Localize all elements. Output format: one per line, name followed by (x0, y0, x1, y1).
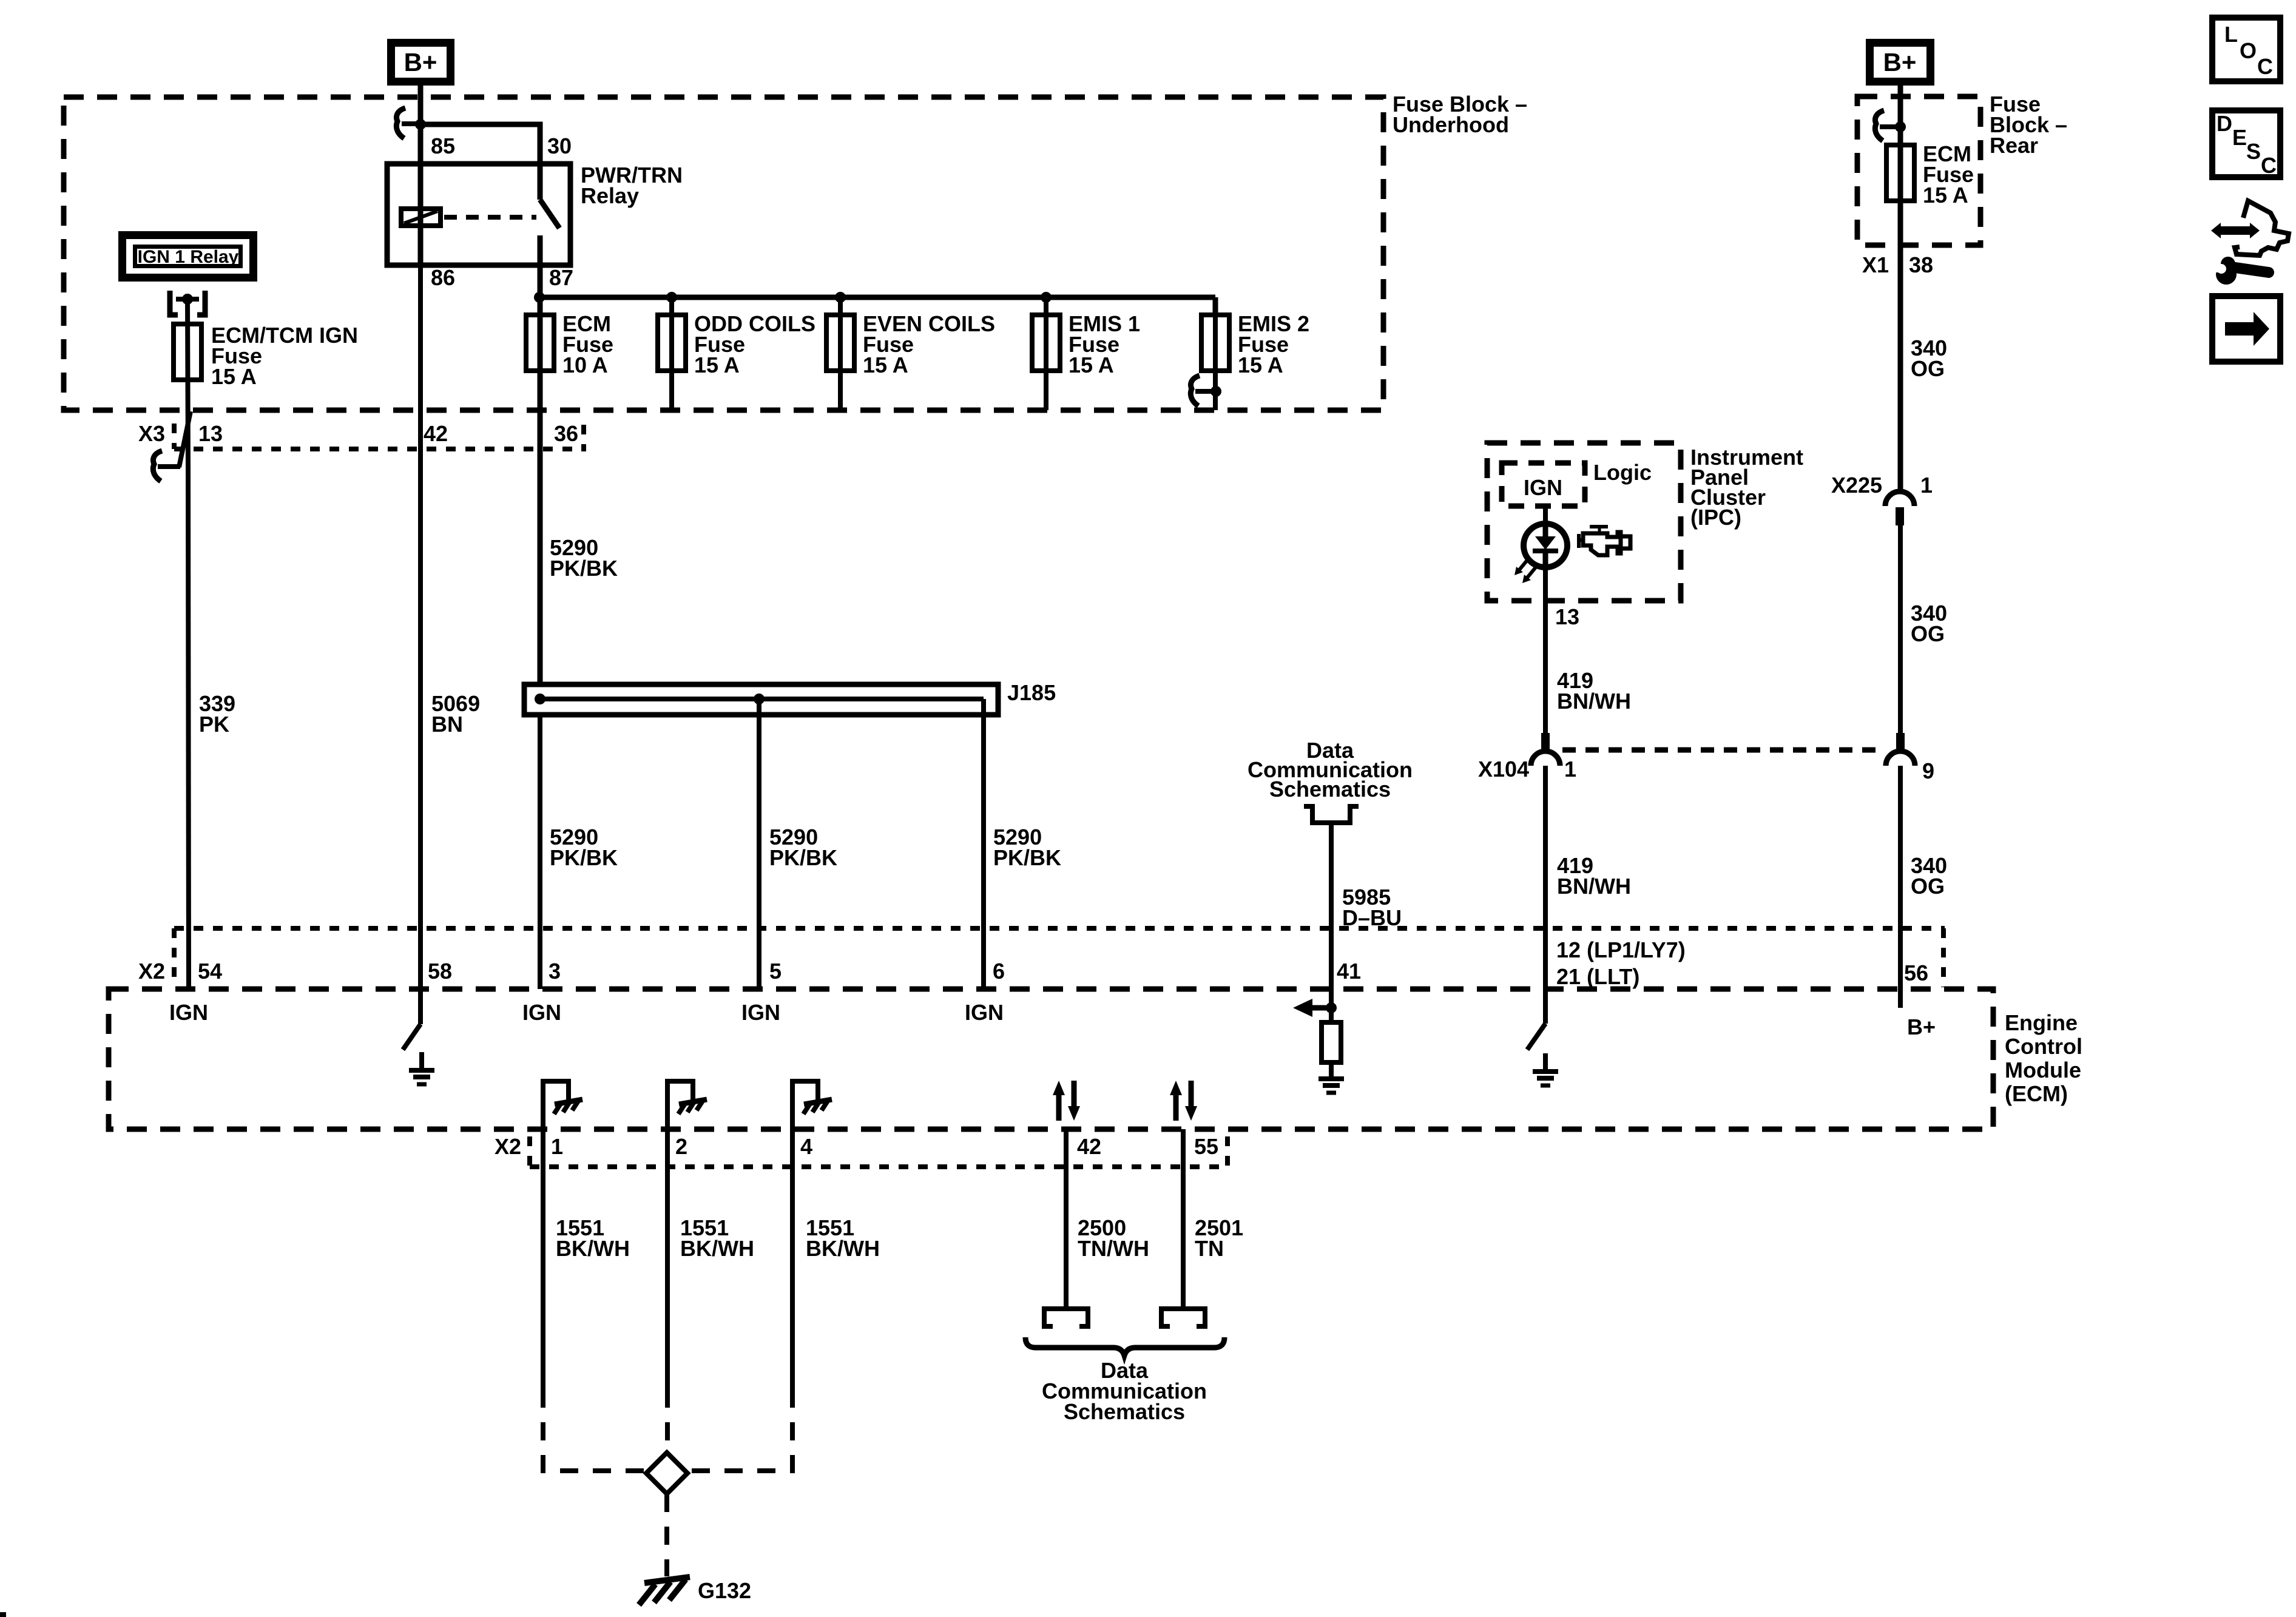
svg-text:PK/BK: PK/BK (550, 556, 618, 581)
svg-text:PK: PK (199, 712, 229, 737)
svg-text:Relay: Relay (581, 183, 639, 208)
svg-text:BN/WH: BN/WH (1557, 689, 1631, 714)
dashed ground run from pin 2 (665, 1389, 670, 1451)
relay switch pin 30 contact and blade (538, 164, 543, 200)
svg-text:Module: Module (2005, 1058, 2081, 1082)
svg-text:OG: OG (1911, 356, 1945, 381)
svg-text:Engine: Engine (2005, 1010, 2078, 1035)
connector clip at X3-13 (153, 451, 180, 481)
off-page terminator at wire 2500 (1044, 1309, 1088, 1326)
wire resistor to ground (1329, 1062, 1334, 1079)
lamp emission arrows (1514, 559, 1536, 583)
dashed ground run from pin 1 (543, 1389, 644, 1471)
svg-text:1: 1 (1920, 473, 1933, 498)
svg-text:G132: G132 (698, 1578, 751, 1603)
ECM internal switch at pin 12/21 (1543, 989, 1548, 1024)
connector X2 dotted line (top of ECM) (174, 926, 1945, 931)
svg-text:5: 5 (769, 959, 782, 984)
svg-text:X1: X1 (1862, 252, 1889, 277)
check engine icon (1579, 527, 1630, 555)
ground (ECM internal, pin 58) (409, 1052, 434, 1084)
svg-text:15 A: 15 A (1923, 183, 1968, 208)
svg-text:C: C (2261, 153, 2277, 178)
svg-text:PK/BK: PK/BK (993, 845, 1061, 870)
relay coil (401, 209, 441, 226)
svg-text:B+: B+ (1883, 48, 1917, 76)
dashed wire diamond to G132 (664, 1494, 669, 1576)
fuse ODD COILS 15 A (669, 297, 674, 410)
wire indicator to IPC pin 13 (1543, 567, 1548, 601)
svg-text:J185: J185 (1007, 680, 1056, 705)
connector clip below EMIS 2 fuse (1190, 376, 1221, 406)
wire 340 OG X225-9 to ECM pin 56 (1898, 766, 1903, 989)
svg-text:OG: OG (1911, 621, 1945, 646)
wire 419 BN/WH X104 to ECM (1543, 766, 1548, 989)
relay pin 85 wire through coil (418, 164, 424, 265)
svg-text:D–BU: D–BU (1342, 905, 1402, 930)
fuse EVEN COILS 15 A (838, 297, 843, 410)
resistor (ECM internal pull-up) (1322, 1022, 1341, 1062)
svg-text:9: 9 (1922, 758, 1934, 783)
connector clip on B+ drop (396, 108, 417, 138)
fuse ECM 10 A (538, 297, 542, 410)
junction node J185 middle (754, 694, 765, 704)
ECM internal ground stub at pin 4 (792, 1081, 818, 1129)
svg-text:Control: Control (2005, 1034, 2082, 1059)
icon LOC box (2212, 18, 2280, 81)
icon forward arrow box (2212, 296, 2280, 362)
IGN logic inner dashed box (1502, 463, 1585, 506)
junction node bus at EMIS 1 fuse (1041, 292, 1052, 303)
svg-text:IGN: IGN (169, 1000, 208, 1025)
junction node bus at ODD COILS fuse (666, 292, 677, 303)
wire IGN logic to indicator (1543, 506, 1548, 524)
wire 5290 PK/BK J185 to ECM pin 3 (538, 715, 542, 989)
power symbol B+ (right battery feed) (1870, 43, 1931, 82)
wire 5985 circuit inside ECM at pin 41 (1329, 989, 1334, 1022)
icon DESC box (2212, 110, 2280, 178)
svg-text:X225: X225 (1831, 473, 1882, 498)
IGN 1 relay output terminal bracket (170, 291, 205, 315)
svg-text:BK/WH: BK/WH (806, 1236, 880, 1261)
svg-text:X2: X2 (138, 959, 165, 984)
svg-text:Logic: Logic (1593, 460, 1652, 485)
serial data arrow (left) (1293, 999, 1331, 1017)
wire 340 OG X225 to X225-9 (1898, 525, 1903, 734)
Engine Control Module (ECM) dashed boundary (109, 989, 1993, 1129)
svg-text:X104: X104 (1478, 757, 1529, 781)
brace to Data Communication Schematics (1025, 1337, 1224, 1355)
svg-text:86: 86 (431, 265, 455, 290)
X3 pass-through diagonal (179, 411, 191, 467)
svg-text:B+: B+ (1907, 1014, 1936, 1039)
svg-text:BK/WH: BK/WH (556, 1236, 630, 1261)
svg-text:PK/BK: PK/BK (550, 845, 618, 870)
connector X104 pin 1 (1531, 733, 1560, 766)
svg-text:PK/BK: PK/BK (769, 845, 837, 870)
splice pack J185 (524, 684, 998, 715)
serial data arrows at pin 55 (1170, 1081, 1197, 1121)
svg-text:15 A: 15 A (1069, 353, 1114, 377)
wire 340 into ECM pin 56 (1898, 989, 1903, 1008)
fuse block underhood dashed boundary (64, 97, 1383, 410)
svg-text:IGN: IGN (741, 1000, 780, 1025)
svg-text:12 (LP1/LY7): 12 (LP1/LY7) (1556, 937, 1686, 962)
svg-text:BN/WH: BN/WH (1557, 874, 1631, 899)
svg-text:1: 1 (1564, 757, 1576, 781)
svg-text:S: S (2246, 139, 2261, 164)
wire 419 BN/WH IPC to X104 (1543, 601, 1548, 734)
fuse ECM Fuse 15 A (rear) (1886, 145, 1914, 201)
svg-text:4: 4 (800, 1134, 812, 1159)
svg-text:42: 42 (1077, 1134, 1101, 1159)
power symbol B+ (left battery feed) (391, 43, 451, 82)
chassis ground hatch (pin 4) (803, 1099, 832, 1114)
svg-text:1: 1 (551, 1134, 563, 1159)
wire B+ to relay pin 85 junction (418, 86, 424, 164)
svg-text:58: 58 (428, 959, 452, 984)
svg-text:41: 41 (1337, 959, 1361, 984)
svg-text:Schematics: Schematics (1064, 1399, 1185, 1424)
svg-text:87: 87 (549, 265, 573, 290)
svg-text:B+: B+ (404, 48, 437, 76)
svg-text:D: D (2217, 111, 2232, 136)
ECM internal switch at pin 58 (418, 989, 423, 1024)
indicator lamp (MIL) (1524, 524, 1567, 567)
svg-text:X2: X2 (495, 1134, 521, 1159)
ground (ECM internal, pin 41) (1319, 1061, 1344, 1093)
svg-text:(IPC): (IPC) (1690, 505, 1741, 530)
fuse EMIS 1 15 A (1044, 297, 1048, 410)
svg-text:BK/WH: BK/WH (680, 1236, 754, 1261)
svg-text:O: O (2240, 38, 2257, 63)
wires through X2 bottom connector (541, 1129, 545, 1389)
svg-text:56: 56 (1904, 960, 1928, 985)
splice diamond (ground junction) (646, 1453, 687, 1494)
page corner mark (0, 1612, 6, 1617)
svg-text:15 A: 15 A (1238, 353, 1283, 377)
svg-text:13: 13 (198, 421, 223, 446)
ground G132 (639, 1577, 690, 1605)
svg-text:TN/WH: TN/WH (1078, 1236, 1149, 1261)
svg-text:38: 38 (1909, 252, 1933, 277)
svg-text:(ECM): (ECM) (2005, 1081, 2068, 1106)
svg-text:10 A: 10 A (562, 353, 608, 377)
relay PWR/TRN box (387, 164, 570, 265)
wire 5069 BN relay pin 86 to ECM pin 58 (418, 265, 423, 989)
wire 5290 PK/BK J185 to ECM pin 6 (981, 715, 986, 989)
svg-text:6: 6 (993, 959, 1005, 984)
wire 339 PK from X3-13 to ECM pin 54 (188, 467, 189, 989)
svg-text:55: 55 (1194, 1134, 1218, 1159)
relay actuation dashed link (444, 215, 536, 220)
off-page terminator at wire 2501 (1161, 1309, 1205, 1326)
chassis ground hatch (pin 2) (678, 1099, 707, 1114)
svg-text:3: 3 (549, 959, 561, 984)
dashed connector line X104 to X225 (1562, 748, 1884, 753)
wire 5290 PK/BK J185 to ECM pin 5 (757, 699, 761, 989)
svg-text:BN: BN (431, 712, 463, 737)
svg-text:IGN: IGN (1524, 475, 1562, 500)
connector X225 pin 9 (1886, 733, 1915, 766)
dashed ground run from pin 4 (689, 1389, 792, 1471)
connector X3 dotted line (174, 447, 584, 451)
wire bus from relay pin 87 (539, 295, 1215, 300)
svg-text:15 A: 15 A (211, 364, 257, 389)
junction node at relay pin 85 branch (415, 119, 426, 130)
serial data arrows at pin 42 (1053, 1081, 1080, 1121)
relay IGN 1 Relay label box (123, 235, 254, 278)
svg-text:21 (LLT): 21 (LLT) (1556, 964, 1639, 989)
svg-text:42: 42 (424, 421, 448, 446)
connector X225 pin 1 (1885, 491, 1914, 525)
svg-text:TN: TN (1195, 1236, 1224, 1261)
junction node at pin 41 (1326, 1002, 1337, 1013)
junction node bus at ECM fuse (534, 292, 545, 303)
svg-text:30: 30 (547, 133, 572, 158)
svg-text:L: L (2224, 22, 2238, 47)
svg-text:15 A: 15 A (863, 353, 908, 377)
svg-text:13: 13 (1555, 604, 1579, 629)
Instrument Panel Cluster dashed box (1487, 443, 1681, 601)
svg-text:36: 36 (554, 421, 578, 446)
svg-text:Rear: Rear (1990, 133, 2038, 158)
chassis ground hatch (pin 1) (554, 1099, 582, 1114)
ECM internal ground stub at pin 2 (667, 1081, 693, 1129)
svg-text:E: E (2232, 125, 2247, 150)
svg-text:X3: X3 (138, 421, 165, 446)
connector X2 dotted line (bottom) (530, 1164, 1227, 1169)
svg-text:IGN: IGN (522, 1000, 561, 1025)
svg-text:Underhood: Underhood (1393, 112, 1509, 137)
svg-text:OG: OG (1911, 874, 1945, 899)
svg-text:54: 54 (198, 959, 222, 984)
icon wrench (2206, 257, 2269, 285)
svg-text:15 A: 15 A (694, 353, 740, 377)
svg-text:IGN: IGN (965, 1000, 1004, 1025)
fuse EMIS 2 15 A (1213, 297, 1218, 410)
wire IGN1 relay to ECM/TCM IGN fuse (187, 299, 188, 468)
Fuse Block - Rear dashed boundary (1857, 96, 1980, 245)
junction node J185 left (535, 694, 545, 704)
wire 5985 D-BU to ECM pin 41 (1329, 823, 1334, 989)
wire B+ to ECM fuse (rear) (1898, 86, 1903, 489)
connector clip on right B+ drop (1875, 110, 1906, 141)
svg-text:IGN 1 Relay: IGN 1 Relay (138, 247, 239, 267)
ground (ECM internal, pin 12/21) (1533, 1053, 1558, 1085)
ECM internal ground stub at pin 1 (543, 1081, 569, 1129)
fuse ECM/TCM IGN 15 A (174, 324, 201, 380)
wire branch to relay pin 30 (420, 124, 540, 164)
svg-text:2: 2 (675, 1134, 687, 1159)
junction node bus at EVEN COILS fuse (835, 292, 846, 303)
icon panel outline with arrows (2211, 201, 2289, 255)
off-page bracket (data comm) (1304, 806, 1359, 823)
svg-text:C: C (2257, 54, 2273, 79)
svg-text:85: 85 (431, 133, 455, 158)
svg-text:Schematics: Schematics (1269, 777, 1391, 802)
